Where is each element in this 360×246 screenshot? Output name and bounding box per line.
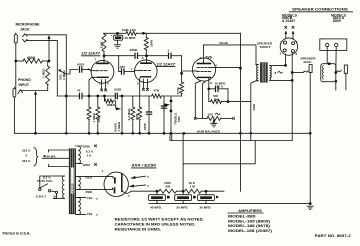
socket pin numbers bbox=[280, 40, 298, 56]
V1 pin digits bbox=[88, 57, 109, 85]
capacitor .0035 (mid line) bbox=[115, 93, 117, 98]
X X marks bbox=[285, 26, 288, 29]
svg-text:1 W: 1 W bbox=[190, 185, 196, 189]
node box top bbox=[328, 62, 331, 65]
svg-text:PHONO: PHONO bbox=[18, 78, 31, 82]
pin labels 1 and 7 bbox=[102, 169, 131, 198]
resistor 500 (6V6 cathode) bbox=[209, 89, 228, 104]
capacitor 10 MFD bbox=[209, 86, 228, 91]
heading SPEAKER CONNECTIONS bbox=[290, 8, 353, 12]
wire connector right pin to box bbox=[335, 47, 337, 73]
transformer core laminated bbox=[69, 149, 75, 214]
svg-text:MODEL-168 (20367): MODEL-168 (20367) bbox=[228, 229, 272, 233]
output transformer T2 primary bbox=[256, 65, 258, 81]
svg-text:YEL: YEL bbox=[87, 212, 93, 216]
node 1000 top bbox=[96, 95, 99, 98]
microphone jack ring contact bbox=[23, 39, 28, 42]
capacitor 40 MFD bbox=[149, 191, 166, 203]
volume control pot wiper arrow bbox=[60, 71, 67, 75]
svg-text:1 MEG: 1 MEG bbox=[41, 68, 45, 78]
phono input label bbox=[18, 78, 31, 87]
V2 heater pins bbox=[143, 79, 147, 88]
svg-text:0: 0 bbox=[26, 154, 28, 158]
svg-text:1 MEG: 1 MEG bbox=[117, 121, 121, 131]
svg-text:150: 150 bbox=[208, 113, 213, 117]
svg-text:8: 8 bbox=[210, 81, 212, 85]
phono jack contact bbox=[18, 90, 23, 94]
svg-text:.02MF: .02MF bbox=[129, 48, 138, 52]
ground 20MFD bbox=[114, 45, 121, 48]
6V6 heater leads bbox=[195, 81, 205, 119]
capacitor 20 MFD electrolytic bbox=[114, 33, 123, 44]
capacitor .1 (to 6V6 grid) bbox=[147, 53, 182, 58]
V1 heater pins bbox=[102, 80, 106, 89]
resistor 470K vertical bbox=[180, 73, 184, 96]
wire connector left pin to box bbox=[327, 47, 329, 64]
svg-text:1/2 12AX7: 1/2 12AX7 bbox=[157, 62, 177, 66]
wire mid-66 vertical to rail bbox=[65, 96, 67, 133]
svg-text:1: 1 bbox=[280, 40, 282, 44]
svg-text:60 MA: 60 MA bbox=[47, 155, 57, 159]
svg-text:47K: 47K bbox=[154, 88, 160, 92]
wire box bottom lead down bbox=[335, 81, 337, 90]
wire phono to 1MEG bbox=[22, 90, 48, 92]
primary winding left bbox=[54, 176, 65, 198]
node 6V6 cathode bbox=[207, 87, 210, 90]
resistor 150 hum balance bbox=[197, 116, 232, 120]
treble pot dots bbox=[170, 100, 173, 103]
resistor 1 MEG (phono) vertical bbox=[46, 61, 50, 91]
wire wiper to coupling cap bbox=[66, 70, 78, 75]
treble wiper arrow bbox=[163, 110, 165, 112]
node 6V6 grid bbox=[180, 72, 183, 75]
arrow on phono wire bbox=[34, 91, 37, 95]
svg-text:1 MEG: 1 MEG bbox=[92, 112, 96, 122]
output transformer secondary bbox=[270, 65, 272, 80]
wire OPT primary bottom to B+ bbox=[251, 64, 256, 141]
svg-text:GRN: GRN bbox=[83, 163, 91, 167]
wire B+ from rectifier bbox=[127, 191, 225, 193]
resistor 1000 vertical (V1 cathode) bbox=[96, 96, 100, 133]
svg-text:MODEL-880: MODEL-880 bbox=[228, 215, 256, 219]
wire mic tip to grid line bbox=[27, 35, 67, 96]
HV to rectifier winding right bbox=[76, 177, 106, 190]
node mic ground bbox=[14, 60, 17, 63]
svg-text:GRN: GRN bbox=[83, 144, 91, 148]
node secondary bottom bbox=[291, 79, 294, 82]
node screen tap bbox=[239, 67, 242, 70]
wire phono arrow down to ground rail bbox=[35, 94, 37, 133]
svg-text:7: 7 bbox=[128, 194, 130, 198]
svg-text:RESISTORS 1/2 WATT EXCEPT AS: RESISTORS 1/2 WATT EXCEPT AS NOTED. bbox=[115, 217, 205, 221]
arrow on mic tip wire bbox=[48, 35, 51, 39]
microphone jack label bbox=[16, 23, 41, 32]
HV labels 315V 0 315V bbox=[22, 149, 31, 163]
svg-text:1/2 12AX7: 1/2 12AX7 bbox=[82, 52, 102, 56]
svg-text:SPEAKER CONNECTIONS: SPEAKER CONNECTIONS bbox=[292, 8, 348, 12]
node grid-leak tap bbox=[103, 95, 106, 98]
svg-text:& 20367: & 20367 bbox=[282, 19, 295, 23]
arrows up to socket bbox=[285, 31, 295, 39]
svg-text:MODEL-165 (8809): MODEL-165 (8809) bbox=[228, 219, 270, 223]
svg-text:1500: 1500 bbox=[135, 113, 139, 120]
svg-text:PART NO. 8697-2: PART NO. 8697-2 bbox=[315, 234, 351, 238]
rail junction dots bbox=[34, 132, 37, 135]
label 1/2 12AX7 (V1) bbox=[82, 52, 102, 56]
svg-text:MODEL-166 (9678): MODEL-166 (9678) bbox=[228, 224, 270, 228]
Y arrows rectifier heater bbox=[129, 175, 150, 188]
svg-text:HUM BALANCE: HUM BALANCE bbox=[197, 129, 220, 133]
svg-text:20 MFD: 20 MFD bbox=[125, 36, 137, 40]
resistor 120K in rail bbox=[126, 31, 137, 35]
resistor 1 MEG horizontal (V2 grid leak) bbox=[105, 96, 114, 103]
svg-text:+: + bbox=[110, 34, 112, 38]
svg-text:50 MFD.: 50 MFD. bbox=[177, 205, 189, 209]
node bass top bbox=[121, 95, 124, 98]
capacitor .0035 vertical bbox=[146, 96, 151, 133]
label 6X4 / EZ90 bbox=[132, 164, 157, 168]
node 40MFD bbox=[156, 190, 159, 193]
wire left rail down to phono bbox=[15, 61, 17, 88]
svg-text:CAPACITANCE IN MFD UNLESS NOTE: CAPACITANCE IN MFD UNLESS NOTED. bbox=[115, 222, 196, 226]
svg-text:470K: 470K bbox=[176, 86, 180, 94]
wire B+ riser to top rail bbox=[240, 33, 242, 191]
phono jack plug bbox=[13, 87, 16, 133]
resistor 1500 vertical (V2 cathode) bbox=[138, 96, 142, 133]
wire bus link down bbox=[183, 141, 255, 164]
notes text bbox=[115, 217, 205, 231]
capacitor .0035 (to V1 grid) bbox=[80, 67, 91, 72]
node V2 plate bbox=[145, 54, 148, 57]
node 20MFD bbox=[205, 190, 208, 193]
label 60 MA bbox=[43, 155, 56, 159]
svg-text:3: 3 bbox=[295, 52, 297, 56]
svg-text:JACK: JACK bbox=[20, 28, 30, 32]
svg-text:RED: RED bbox=[86, 190, 93, 194]
svg-text:RESISTANCE IN OHMS.: RESISTANCE IN OHMS. bbox=[115, 227, 162, 231]
capacitor 50 MFD bbox=[175, 191, 192, 203]
wire coupling down to 6V6 grid bbox=[182, 56, 193, 74]
hum balance wiper to ground bbox=[212, 119, 215, 123]
svg-text:INPUT: INPUT bbox=[19, 83, 30, 87]
capacitor 47 bbox=[80, 93, 83, 98]
svg-text:2.2 MEG: 2.2 MEG bbox=[127, 108, 131, 121]
fuse 3A bbox=[51, 191, 58, 199]
svg-text:.0035: .0035 bbox=[77, 63, 85, 67]
label SPST and 3A bbox=[36, 195, 58, 199]
wire mic ring to volume bbox=[27, 41, 58, 96]
svg-text:315 V.: 315 V. bbox=[22, 159, 31, 163]
label 117V 50-60 CAC bbox=[37, 175, 53, 183]
svg-text:1: 1 bbox=[102, 169, 104, 173]
output transformer core bbox=[260, 63, 267, 83]
svg-text:MICROPHONE: MICROPHONE bbox=[16, 23, 41, 27]
svg-text:1000: 1000 bbox=[97, 115, 101, 122]
speaker jack 2 squiggle and prong bbox=[336, 65, 348, 90]
node bottom right ground bbox=[309, 202, 312, 205]
treble pot element bbox=[170, 96, 172, 133]
node 50MFD bbox=[182, 190, 185, 193]
V2 heater X marks bbox=[142, 88, 145, 91]
node 680K right bbox=[48, 60, 51, 63]
svg-text:47: 47 bbox=[77, 89, 81, 93]
node mid-66 bbox=[65, 95, 68, 98]
triode V1 bbox=[89, 56, 114, 96]
resistor 47K in mid line bbox=[152, 94, 162, 98]
resistor 1000 5W label bbox=[164, 181, 171, 189]
svg-text:AMPLIFIERS: AMPLIFIERS bbox=[238, 209, 262, 213]
svg-text:3: 3 bbox=[200, 56, 202, 60]
wire ground rail 2 bbox=[149, 203, 310, 205]
svg-text:20 MFD.: 20 MFD. bbox=[200, 205, 212, 209]
rectifier 6X4 bbox=[104, 172, 128, 196]
resistor 180K vertical bbox=[143, 33, 148, 55]
svg-text:BLUE: BLUE bbox=[220, 41, 228, 45]
label SPEAKER JACK bbox=[301, 57, 317, 64]
wire 50MFD node up to rail bbox=[182, 133, 184, 191]
wire V1 plate to coupling bbox=[104, 56, 119, 72]
resistor 500 5W label bbox=[213, 94, 219, 101]
6.3V winding right bbox=[76, 146, 83, 164]
node V1 plate bbox=[103, 54, 106, 57]
capacitor .047 bbox=[119, 69, 135, 74]
svg-text:.0035: .0035 bbox=[143, 123, 147, 131]
svg-text:S.P.S.T.: S.P.S.T. bbox=[36, 195, 47, 199]
bass pot element bbox=[121, 96, 123, 133]
capacitor .02MF (V1 plate to V2 plate line) bbox=[119, 53, 147, 58]
svg-text:.0035: .0035 bbox=[114, 88, 122, 92]
label 8 ohm bbox=[275, 71, 283, 75]
svg-text:2: 2 bbox=[280, 51, 282, 55]
wire secondary tap to jack tip bbox=[292, 72, 303, 74]
node B+ rail crossing bbox=[239, 132, 242, 135]
speaker matching transformer box (jack models) bbox=[321, 64, 336, 82]
wire ground rail bbox=[14, 132, 310, 134]
label SPEAKER SOCKT bbox=[257, 42, 273, 50]
svg-text:YEL: YEL bbox=[87, 196, 93, 200]
svg-text:1 A.: 1 A. bbox=[87, 154, 93, 158]
connector plate models 8810 bbox=[320, 39, 347, 51]
V1 heater X marks bbox=[100, 89, 103, 92]
capacitor .0035 treble vertical bbox=[161, 96, 166, 111]
svg-text:A 5132: A 5132 bbox=[71, 183, 75, 193]
svg-text:Printed in U.S.A.: Printed in U.S.A. bbox=[3, 231, 31, 235]
svg-text:4: 4 bbox=[215, 63, 217, 67]
resistor 10K 1W bbox=[185, 189, 202, 193]
right column MODELS 8810 & 8809 bbox=[331, 13, 347, 23]
node 20MFD tap bbox=[116, 32, 119, 35]
node box right bottom bbox=[334, 80, 337, 83]
amplifiers table bbox=[228, 209, 272, 233]
svg-text:180K: 180K bbox=[149, 39, 153, 47]
ground symbol bottom right bbox=[307, 206, 314, 209]
svg-text:5W: 5W bbox=[166, 185, 171, 189]
resistor 1000 5W bbox=[159, 189, 177, 193]
microphone jack plug bbox=[14, 33, 17, 61]
HV secondary leads left bbox=[43, 150, 70, 167]
svg-text:8: 8 bbox=[275, 71, 277, 75]
wire BLUE plate lead bbox=[204, 45, 257, 65]
wire mic arrow down bbox=[48, 38, 50, 61]
resistor 10K 1W label bbox=[189, 181, 196, 189]
svg-text:4: 4 bbox=[296, 40, 298, 44]
wire mid line bbox=[57, 95, 181, 97]
microphone jack tip contact bbox=[23, 34, 28, 37]
node jack tap bbox=[291, 71, 294, 74]
wire secondary ground down bbox=[291, 53, 293, 141]
svg-text:8809: 8809 bbox=[333, 19, 341, 23]
wire OPT secondary bottom bbox=[270, 79, 293, 81]
resistor 220K bbox=[102, 33, 106, 55]
node sec top bbox=[284, 64, 287, 67]
resistor 2.2 MEG vertical bbox=[131, 96, 135, 133]
V2 pin digits bbox=[131, 56, 144, 85]
speaker socket bbox=[280, 38, 297, 55]
wire treble cap to rail bbox=[163, 111, 165, 133]
RED labels bbox=[86, 175, 93, 194]
wire speaker ground to bottom bbox=[309, 133, 311, 203]
node box right mid bbox=[334, 71, 337, 74]
label 1/2 12AX7 (V2) bbox=[157, 62, 177, 66]
label 150 ohm bbox=[208, 113, 220, 117]
wire OPT secondary top to socket bbox=[270, 54, 286, 65]
capacitor 20 MFD bbox=[198, 191, 215, 203]
bass wiper arrow bbox=[113, 101, 116, 108]
resistor 1 MEG vertical (V1 grid leak) bbox=[87, 96, 91, 133]
svg-text:1MEG: 1MEG bbox=[107, 103, 116, 107]
node cathode R right bbox=[227, 100, 230, 103]
svg-text:315 V.: 315 V. bbox=[22, 149, 31, 153]
GRN labels and 6.3V bbox=[83, 144, 97, 167]
svg-text:50K: 50K bbox=[177, 116, 181, 122]
node 180K top bbox=[142, 32, 145, 35]
wire top rail bbox=[104, 32, 241, 34]
switch SPST bbox=[39, 176, 54, 192]
wire cathode return bbox=[228, 89, 251, 102]
capacitor 10 MFD 25V label bbox=[215, 81, 227, 88]
svg-text:RED: RED bbox=[252, 103, 256, 110]
svg-text:JACK: JACK bbox=[303, 60, 312, 64]
speaker jack symbol bbox=[303, 65, 312, 134]
brace bbox=[34, 148, 38, 166]
rectifier heater winding right bbox=[76, 197, 86, 214]
node V1 cathode return bbox=[88, 95, 91, 98]
YEL labels bbox=[87, 196, 99, 217]
svg-text:40 MFD.: 40 MFD. bbox=[150, 205, 162, 209]
left column MODELS 9867B & 20367 bbox=[282, 13, 298, 23]
heater bus bbox=[170, 133, 292, 140]
triode V2 bbox=[135, 56, 158, 96]
svg-text:1 MEG: 1 MEG bbox=[62, 70, 66, 80]
svg-text:SOCKT.: SOCKT. bbox=[260, 45, 271, 49]
svg-text:.1: .1 bbox=[167, 49, 170, 53]
svg-text:RED: RED bbox=[86, 175, 93, 179]
resistor 680K bbox=[16, 59, 49, 63]
svg-text:6X4 / EZ90: 6X4 / EZ90 bbox=[132, 164, 157, 168]
ground hum balance bbox=[210, 123, 217, 126]
X marks heater 150 bbox=[194, 117, 197, 120]
pentode 6V6 bbox=[192, 45, 240, 89]
